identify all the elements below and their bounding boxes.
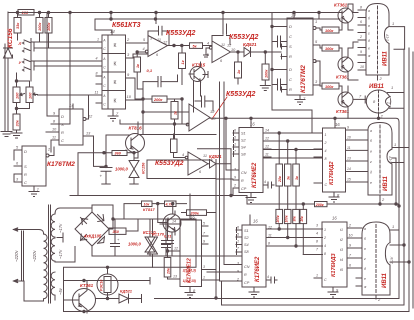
svg-text:2: 2 — [387, 102, 391, 105]
svg-text:7: 7 — [303, 96, 306, 101]
pin stubs U13 right — [346, 130, 369, 182]
svg-text:8: 8 — [337, 193, 340, 198]
svg-text:R: R — [289, 54, 292, 59]
flip-flop U6 half К176ТМ2 — [59, 109, 83, 145]
svg-text:б: б — [370, 139, 372, 143]
svg-text:R: R — [289, 87, 292, 92]
svg-text:в: в — [364, 247, 366, 251]
svg-text:13: 13 — [173, 275, 177, 279]
svg-text:1: 1 — [392, 21, 394, 26]
svg-text:д: д — [368, 39, 370, 43]
wire right bus 4 — [392, 158, 396, 204]
svg-text:3: 3 — [316, 224, 318, 228]
svg-text:S8: S8 — [244, 250, 250, 254]
resistor R9 1к — [179, 53, 186, 69]
svg-text:30к: 30к — [293, 216, 297, 222]
svg-text:12: 12 — [265, 145, 269, 149]
svg-text:А: А — [102, 39, 106, 43]
svg-text:7: 7 — [316, 248, 319, 252]
svg-text:10: 10 — [349, 234, 353, 238]
svg-text:6: 6 — [234, 129, 236, 133]
zener VD7 КС170 — [148, 219, 158, 267]
svg-text:12: 12 — [174, 247, 178, 251]
resistor R32 200к — [152, 96, 167, 102]
pin stubs U12 — [160, 224, 220, 280]
svg-text:1: 1 — [237, 240, 239, 244]
svg-text:C: C — [103, 66, 106, 70]
svg-text:100к: 100к — [325, 29, 334, 33]
resistor R14 100к — [322, 83, 339, 89]
svg-text:2: 2 — [324, 141, 327, 145]
svg-text:10к: 10к — [144, 202, 150, 206]
svg-text:8: 8 — [268, 242, 270, 246]
pin stubs U10 right — [263, 133, 271, 185]
svg-text:4: 4 — [325, 149, 327, 153]
resistor R21 3к — [285, 164, 292, 186]
vfd H1 ИВ11 — [366, 4, 389, 76]
decoder U14 К176ИД3 — [322, 222, 347, 287]
svg-text:200к: 200к — [153, 98, 163, 102]
svg-text:8: 8 — [373, 99, 376, 104]
svg-text:S: S — [24, 164, 27, 169]
svg-text:а: а — [370, 129, 372, 133]
pin 1 H4 — [390, 229, 399, 231]
svg-text:1: 1 — [234, 143, 236, 147]
svg-text:C: C — [324, 278, 327, 282]
wire U5 to transistors — [320, 30, 322, 86]
vfd H3 ИВ11 — [368, 123, 392, 196]
resistor R11 100к — [262, 64, 269, 80]
ground U11 — [249, 287, 259, 297]
svg-text:1(2,3,15): 1(2,3,15) — [183, 279, 196, 283]
wire display chain — [287, 228, 289, 230]
pin stubs U6 left — [51, 116, 59, 140]
svg-text:11: 11 — [95, 91, 99, 95]
flip-flop U7 half К176ТМ2 — [22, 146, 46, 186]
leader line U9 — [212, 97, 227, 119]
wire bottom connections — [155, 179, 217, 299]
ground U10 — [246, 193, 256, 203]
svg-text:К: К — [114, 43, 117, 49]
svg-text:13: 13 — [86, 132, 91, 136]
svg-text:б: б — [368, 17, 370, 21]
svg-text:ИВ11: ИВ11 — [383, 50, 389, 66]
svg-text:9: 9 — [53, 112, 56, 116]
transistor Q2 КТ361 — [338, 8, 353, 23]
svg-text:10: 10 — [347, 136, 351, 140]
svg-text:R: R — [24, 172, 27, 177]
svg-text:4хКД105: 4хКД105 — [83, 234, 102, 239]
wire power block frame — [64, 219, 197, 312]
svg-text:S8: S8 — [241, 153, 247, 157]
resistor R12 100к — [322, 27, 339, 33]
capacitor C3 — [212, 24, 230, 45]
svg-text:1: 1 — [325, 133, 327, 137]
svg-text:3к: 3к — [287, 176, 291, 180]
svg-text:е: е — [368, 47, 370, 51]
svg-text:D: D — [289, 67, 292, 72]
svg-text:11: 11 — [221, 43, 225, 47]
svg-text:16: 16 — [335, 122, 340, 127]
svg-text:ж: ж — [363, 285, 367, 289]
svg-text:t4: t4 — [340, 258, 343, 262]
ground pin5 U4 — [204, 48, 210, 57]
transistor Q4 КТ361 — [338, 92, 353, 107]
svg-text:9: 9 — [336, 288, 339, 293]
wire mid horizontals — [120, 120, 212, 179]
svg-text:1: 1 — [391, 85, 393, 90]
svg-text:8: 8 — [325, 157, 327, 161]
svg-text:1: 1 — [392, 224, 394, 229]
svg-text:К: К — [114, 62, 117, 68]
svg-text:К561КТ3: К561КТ3 — [112, 22, 141, 29]
svg-text:14: 14 — [172, 220, 176, 224]
bridge VD3 4хКД105 — [75, 212, 109, 246]
svg-text:2(1,15,3): 2(1,15,3) — [182, 269, 196, 273]
svg-text:а: а — [364, 227, 366, 231]
pin stubs U5 left — [281, 44, 287, 92]
svg-text:А: А — [102, 57, 106, 61]
svg-text:г: г — [368, 32, 370, 36]
svg-text:2: 2 — [233, 184, 236, 188]
wire right bus 2 — [222, 49, 405, 305]
svg-text:8: 8 — [53, 120, 56, 124]
svg-text:К176ИД3: К176ИД3 — [331, 253, 337, 277]
zener VD5 КС156 — [129, 153, 139, 184]
svg-text:20к: 20к — [300, 216, 304, 223]
svg-text:S4: S4 — [241, 146, 246, 150]
svg-text:1к: 1к — [181, 59, 185, 64]
pin stubs U6 right — [83, 118, 86, 121]
svg-text:~220v: ~220v — [14, 250, 19, 262]
svg-text:КД521: КД521 — [209, 154, 222, 159]
svg-text:1: 1 — [316, 274, 318, 278]
capacitor C6 — [272, 70, 287, 91]
svg-text:13: 13 — [347, 157, 351, 161]
svg-text:t3: t3 — [340, 248, 343, 252]
svg-text:6: 6 — [349, 264, 351, 268]
relay V1 РЭС10 — [97, 274, 118, 295]
pin stubs U10 left — [233, 131, 239, 196]
svg-text:360: 360 — [115, 152, 122, 156]
pin stubs U11 left — [236, 228, 242, 282]
svg-text:100к: 100к — [284, 215, 288, 222]
svg-text:К176ТМ2: К176ТМ2 — [47, 161, 75, 168]
svg-text:9: 9 — [127, 72, 130, 77]
ground — [260, 86, 270, 91]
diode VD6 КД521 — [96, 294, 142, 303]
counter U11 К176ИЕ2 — [242, 225, 266, 287]
svg-text:КТ315: КТ315 — [192, 63, 206, 68]
svg-text:5: 5 — [315, 39, 318, 44]
mains plug prong 2 — [14, 279, 25, 283]
resistor R29 — [171, 139, 178, 153]
svg-text:4: 4 — [324, 244, 326, 248]
svg-text:1: 1 — [97, 38, 99, 42]
svg-text:4: 4 — [207, 42, 209, 46]
transformer T1 secondary I — [51, 208, 60, 262]
svg-text:5: 5 — [143, 38, 146, 42]
svg-text:6: 6 — [16, 162, 19, 166]
svg-text:7: 7 — [234, 150, 237, 154]
svg-text:S2: S2 — [244, 236, 250, 240]
ground U14 — [328, 287, 338, 297]
svg-text:C: C — [103, 84, 106, 88]
capacitor C1 — [148, 26, 169, 45]
svg-text:15: 15 — [347, 178, 351, 182]
svg-text:К176ИЕ2: К176ИЕ2 — [252, 162, 258, 188]
svg-text:ИВ11: ИВ11 — [383, 175, 389, 191]
wire U5 supply column — [271, 13, 273, 97]
svg-text:C: C — [289, 77, 292, 82]
svg-text:C: C — [289, 34, 292, 39]
svg-text:КД521: КД521 — [120, 289, 133, 294]
svg-text:12: 12 — [163, 41, 168, 45]
svg-text:R: R — [244, 273, 247, 277]
mains plug prong 1 — [14, 228, 40, 232]
resistor R25 30к — [293, 209, 300, 223]
svg-text:16: 16 — [190, 215, 195, 220]
svg-text:9: 9 — [349, 244, 351, 248]
svg-text:3: 3 — [237, 262, 239, 266]
wire H1 anode loop — [390, 27, 405, 50]
svg-text:3: 3 — [203, 265, 205, 269]
resistor R26 20к — [300, 209, 307, 223]
pin stubs H4 — [356, 228, 362, 286]
svg-text:16: 16 — [332, 216, 337, 221]
transformer T1 secondary II — [51, 272, 55, 300]
svg-text:6: 6 — [220, 59, 223, 63]
svg-text:РЭС10: РЭС10 — [100, 280, 104, 291]
svg-text:1к: 1к — [237, 69, 241, 74]
svg-text:1000,0: 1000,0 — [115, 167, 128, 172]
svg-text:2: 2 — [126, 37, 130, 42]
svg-text:7: 7 — [203, 232, 206, 236]
svg-text:100к: 100к — [264, 69, 268, 78]
svg-text:C: C — [325, 183, 328, 187]
svg-text:R: R — [61, 130, 64, 135]
resistor R17 200к — [187, 210, 207, 216]
svg-text:33к: 33к — [15, 119, 19, 126]
switch U2 К561КТ3 — [102, 35, 126, 109]
wire C2 branch — [143, 82, 189, 135]
svg-text:9: 9 — [203, 240, 205, 244]
zener VD4 КС170 — [145, 219, 155, 256]
svg-text:4: 4 — [267, 275, 269, 279]
svg-text:10: 10 — [231, 48, 236, 52]
svg-text:а: а — [368, 9, 370, 13]
svg-text:ИВ11: ИВ11 — [382, 272, 388, 288]
svg-text:г: г — [370, 160, 372, 164]
svg-text:8: 8 — [96, 72, 98, 76]
capacitor C9 — [162, 219, 171, 256]
svg-text:8: 8 — [324, 252, 326, 256]
wire clock chain — [72, 104, 74, 109]
svg-text:100к: 100к — [325, 47, 334, 51]
svg-text:~220v: ~220v — [32, 250, 37, 262]
wire H2 anodes — [388, 93, 405, 109]
svg-text:200к: 200к — [276, 215, 280, 223]
wire U9 output — [210, 96, 399, 179]
decoder U13 К176ИД2 — [323, 128, 346, 192]
capacitor C10 1000,0 — [100, 166, 112, 184]
svg-text:КТ361: КТ361 — [80, 283, 94, 288]
flip-flop U5 К176ТМ2 — [287, 18, 313, 95]
svg-text:R: R — [241, 179, 244, 183]
svg-text:7: 7 — [116, 111, 119, 116]
svg-text:10: 10 — [360, 65, 364, 69]
resistor R31 1к — [171, 102, 178, 120]
svg-text:2: 2 — [377, 297, 381, 302]
wire Q2 emitter — [348, 4, 358, 13]
transistor Q6 КТ816 — [126, 134, 145, 153]
svg-text:1: 1 — [394, 142, 396, 147]
svg-text:1к: 1к — [174, 111, 178, 115]
svg-text:9: 9 — [347, 126, 349, 130]
svg-text:D: D — [24, 149, 27, 154]
svg-text:100к: 100к — [38, 22, 42, 31]
svg-text:CN: CN — [241, 171, 247, 175]
wire U8 feedback — [147, 149, 231, 179]
svg-text:100: 100 — [15, 92, 19, 99]
svg-text:К176ИД2: К176ИД2 — [329, 161, 335, 185]
svg-text:К553УД2: К553УД2 — [155, 160, 184, 167]
svg-text:5: 5 — [203, 222, 205, 226]
wire filter rails — [70, 153, 315, 204]
svg-text:11: 11 — [268, 234, 272, 238]
pin 2 H1 — [377, 75, 379, 80]
transistor Q7 КТ361 — [73, 289, 96, 312]
svg-text:CN: CN — [244, 265, 250, 269]
svg-text:5к: 5к — [193, 44, 198, 48]
svg-text:1-1V: 1-1V — [389, 155, 393, 163]
svg-text:А: А — [102, 76, 106, 80]
svg-text:6: 6 — [237, 226, 239, 230]
resistor R28 200к — [315, 202, 328, 207]
wire block mid rail — [64, 278, 151, 285]
svg-text:3: 3 — [315, 79, 318, 84]
wire diode output — [265, 52, 281, 64]
svg-text:~17v: ~17v — [58, 223, 63, 233]
svg-text:5: 5 — [237, 233, 239, 237]
svg-text:14: 14 — [265, 129, 269, 133]
op-amp U8 К553УД2 — [188, 152, 208, 175]
resistor R13 100к — [322, 45, 339, 51]
svg-text:д: д — [364, 267, 366, 271]
svg-text:4: 4 — [182, 153, 184, 157]
svg-text:12: 12 — [227, 44, 232, 48]
left supply rail — [5, 12, 8, 131]
resistor R24 100к — [284, 209, 291, 223]
svg-text:е: е — [370, 181, 372, 185]
pin 2 H4 — [375, 295, 377, 299]
diode VD8 КД521 — [208, 160, 231, 169]
wire sensor to switch — [17, 33, 97, 87]
resistor R8 5к — [190, 43, 203, 49]
svg-text:А: А — [102, 94, 106, 98]
trimmer R6 — [26, 87, 33, 103]
pin stubs U14 left — [314, 277, 322, 279]
svg-text:100к: 100к — [325, 85, 334, 89]
wire trimmer bottoms — [17, 103, 30, 115]
wire resistor rails — [263, 133, 323, 209]
svg-text:~5v: ~5v — [58, 287, 63, 295]
wire secondary I to bridge — [55, 208, 92, 262]
resistor R4 100к — [45, 18, 52, 34]
pin 1 H3 — [392, 148, 409, 163]
capacitor C11 — [268, 182, 274, 188]
svg-text:2: 2 — [359, 35, 362, 39]
pin stubs H1 grid anodes — [358, 10, 366, 70]
resistor R22 3к — [293, 164, 300, 186]
pin 7 ground U2 — [108, 109, 118, 121]
svg-text:C: C — [103, 47, 106, 51]
ground — [1, 132, 12, 137]
svg-text:C: C — [61, 138, 64, 143]
wire U8 output — [230, 164, 232, 196]
sensor plate E2 — [23, 58, 97, 73]
ground — [11, 130, 22, 138]
svg-text:1: 1 — [324, 228, 326, 232]
svg-text:S4: S4 — [244, 243, 249, 247]
svg-text:1: 1 — [203, 276, 205, 280]
pin stubs U2 right — [126, 43, 149, 100]
svg-text:CP: CP — [241, 187, 247, 191]
svg-text:К176ИЕ2: К176ИЕ2 — [255, 256, 261, 282]
svg-text:6: 6 — [360, 20, 362, 24]
svg-text:К: К — [114, 99, 117, 105]
svg-text:2: 2 — [47, 148, 51, 152]
svg-text:3: 3 — [234, 168, 236, 172]
svg-text:5: 5 — [234, 136, 236, 140]
ground U12 — [185, 287, 195, 298]
svg-text:11: 11 — [347, 146, 351, 150]
pin 7 U5 ground — [295, 95, 305, 105]
counter U10 К176ИЕ2 — [239, 128, 263, 193]
wire bridge outputs — [92, 205, 242, 256]
svg-text:2: 2 — [348, 224, 351, 228]
svg-text:100: 100 — [28, 92, 32, 99]
svg-text:7: 7 — [359, 94, 362, 99]
capacitor C12 — [271, 277, 277, 283]
wire U11 left runs — [207, 265, 236, 282]
svg-text:11: 11 — [265, 153, 269, 157]
svg-text:б: б — [364, 237, 366, 241]
capacitor C7 — [195, 96, 213, 111]
svg-text:20к: 20к — [278, 176, 282, 183]
svg-text:S2: S2 — [241, 139, 247, 143]
svg-text:3: 3 — [127, 52, 130, 57]
transistor Q5 КТ817 — [163, 214, 181, 232]
svg-text:C: C — [24, 180, 27, 185]
svg-text:9: 9 — [237, 270, 239, 274]
wire ladder rails — [278, 228, 280, 230]
svg-text:КТ816: КТ816 — [129, 126, 143, 131]
svg-text:1-1V: 1-1V — [390, 256, 394, 264]
svg-text:11: 11 — [203, 154, 207, 158]
svg-text:К553УД2: К553УД2 — [166, 30, 196, 37]
resistor R18 360 — [112, 151, 127, 156]
svg-text:6: 6 — [156, 53, 159, 57]
svg-text:12: 12 — [268, 226, 272, 230]
wire right bus 1 — [216, 122, 399, 299]
svg-text:11: 11 — [157, 38, 161, 42]
pin stubs U13 left — [314, 133, 323, 183]
pin 2 H2 — [378, 113, 380, 118]
svg-text:К553УД2: К553УД2 — [226, 91, 256, 98]
resistor R27 20к — [164, 258, 171, 278]
resistor R30 — [134, 57, 141, 72]
